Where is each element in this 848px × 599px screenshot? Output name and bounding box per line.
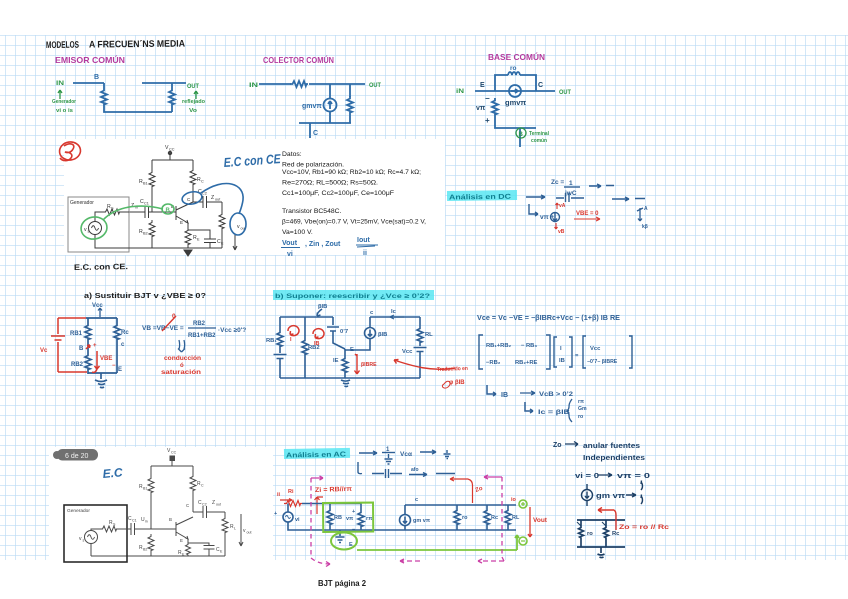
svg-text:ii: ii: [277, 492, 281, 498]
blue annotation swoosh over figure: [181, 184, 246, 235]
capacitor CC1: [129, 206, 149, 218]
source VS: [89, 222, 102, 235]
vi source: [283, 512, 293, 522]
svg-text:E: E: [118, 367, 122, 373]
wire Rc: [192, 160, 194, 168]
wire to out: [309, 83, 365, 85]
beta IB arrow hook: [317, 309, 322, 316]
bottom wire: [299, 122, 351, 124]
svg-text:+: +: [274, 511, 277, 517]
svg-text:MODELOS: MODELOS: [46, 40, 79, 51]
red ii arrow: [280, 499, 292, 502]
svg-text:Iout: Iout: [357, 237, 370, 244]
red bottom wire: [58, 371, 87, 373]
svg-text:CC: CC: [169, 148, 175, 152]
top wire right: [370, 316, 420, 318]
ro branch: [580, 520, 582, 526]
arrow green in: [58, 90, 62, 99]
bottom wire 2: [405, 529, 516, 531]
svg-text:CC: CC: [171, 451, 177, 455]
svg-text:β=469, Vbe(on)=0.7 V, Vt=25mV: β=469, Vbe(on)=0.7 V, Vt=25mV, Vce(sat)=…: [282, 219, 426, 226]
vout arrow: [233, 234, 237, 250]
resistor RE: [185, 228, 191, 246]
svg-text:C: C: [313, 130, 318, 137]
svg-text:Vcc: Vcc: [590, 346, 601, 352]
wire: [344, 374, 346, 378]
wire to cap: [121, 211, 129, 213]
svg-text:E.C. con CE.: E.C. con CE.: [74, 262, 128, 272]
svg-text:vA: vA: [559, 203, 566, 209]
AC notes line1: [358, 450, 455, 478]
left vertical: [279, 317, 281, 330]
labels iN OUT green: [456, 88, 571, 96]
wire: [279, 348, 281, 353]
battery Vcc right: [414, 348, 427, 352]
svg-text:+: +: [93, 343, 97, 349]
capacitor CE: [188, 543, 215, 556]
svg-text:A FRECUEN´NS MEDIA: A FRECUEN´NS MEDIA: [89, 39, 185, 51]
Rc resistor: [486, 505, 488, 508]
base wire: [149, 211, 177, 213]
svg-text:out: out: [216, 503, 221, 507]
svg-text:RB1+RB2: RB1+RB2: [188, 333, 216, 339]
top wire: [86, 317, 117, 319]
wire: [171, 460, 173, 466]
svg-text:C1: C1: [144, 202, 149, 206]
arrow 3: [612, 197, 645, 201]
wire: [151, 238, 153, 248]
svg-text:vi = 0: vi = 0: [575, 473, 599, 480]
svg-text:OUT: OUT: [559, 89, 571, 96]
main wire E to C: [475, 90, 555, 92]
svg-text:B: B: [94, 74, 99, 81]
svg-text:Terminal: Terminal: [529, 131, 549, 137]
label Zc fraction: [540, 179, 577, 221]
blue AC circuit: [283, 504, 516, 543]
wire to base node: [151, 188, 153, 212]
svg-text:L: L: [234, 527, 236, 531]
red arrow down: [92, 351, 100, 372]
wire: [304, 356, 306, 378]
line2 hook: [358, 462, 362, 474]
svg-text:anular fuentes: anular fuentes: [583, 443, 640, 450]
svg-text:Cc1=100μF, Cc2=100μF, Ce=100μF: Cc1=100μF, Cc2=100μF, Ce=100μF: [282, 190, 394, 197]
Vcc square node: [170, 456, 175, 461]
svg-text:Vcc: Vcc: [402, 349, 413, 355]
red strike and zero: [162, 316, 176, 331]
svg-text:A: A: [644, 206, 648, 212]
ground: [184, 250, 192, 256]
svg-text:Rc: Rc: [121, 330, 129, 336]
svg-text:Independientes: Independientes: [583, 455, 645, 462]
green plus circle: [519, 500, 527, 508]
svg-text:out: out: [247, 531, 252, 535]
svg-text:Vo: Vo: [189, 108, 198, 114]
svg-text:E: E: [180, 538, 183, 543]
green output wire: [357, 535, 519, 550]
wire to cap: [118, 528, 131, 530]
arrow: [359, 451, 377, 455]
wire to rpi: [330, 503, 361, 505]
svg-text:RB: RB: [334, 515, 342, 521]
current source branch: [369, 317, 371, 327]
wire: [171, 106, 173, 112]
emitter branch: [344, 349, 346, 356]
svg-text:βIB: βIB: [378, 332, 387, 338]
resistor RB1: [148, 476, 154, 494]
swoosh curve to vout: [201, 184, 243, 214]
svg-text:vi: vi: [295, 517, 300, 523]
svg-text:−RB₂: −RB₂: [486, 360, 501, 366]
svg-text:ro: ro: [587, 531, 593, 537]
red conduccion o saturacion: [161, 356, 201, 376]
svg-text:, Zin , Zout: , Zin , Zout: [305, 241, 341, 248]
svg-text:Generador: Generador: [67, 508, 90, 514]
wire source bottom: [95, 235, 152, 249]
top rail: [151, 465, 193, 467]
top rail: [152, 159, 193, 161]
small gnd: [444, 450, 451, 459]
svg-text:ro: ro: [578, 414, 583, 420]
bottom wire: [577, 546, 625, 548]
red VA arrows on source: [555, 203, 559, 229]
top wire 2: [405, 504, 516, 506]
afo arrow: [409, 473, 427, 477]
svg-text:IB: IB: [314, 341, 320, 347]
svg-text:RB1: RB1: [70, 331, 83, 337]
wire Rc: [192, 466, 194, 474]
arrow vi to vpi: [598, 473, 612, 477]
wire collector: [192, 186, 194, 202]
resistor RB1: [149, 170, 155, 188]
red loop arrows: [288, 326, 324, 339]
battery symbol: [51, 336, 65, 340]
dash: [436, 473, 455, 475]
svg-text:Datos:: Datos:: [282, 151, 302, 158]
wire input: [73, 82, 104, 84]
generador box: [64, 505, 127, 562]
svg-text:Ic: Ic: [391, 309, 397, 315]
svg-text:Vc: Vc: [40, 348, 48, 354]
svg-text:Zc =: Zc =: [551, 179, 564, 186]
current source circle: [365, 328, 376, 339]
bracket3 right: [629, 336, 632, 368]
svg-text:Va=100 V.: Va=100 V.: [282, 229, 313, 236]
RB resistor: [329, 504, 331, 509]
svg-text:Z: Z: [212, 500, 215, 506]
svg-text:gmvπ: gmvπ: [302, 103, 322, 110]
datos printed text block: [282, 151, 426, 236]
labels circuit a: [70, 330, 129, 373]
transistor Q1: [176, 202, 193, 228]
red labels: [40, 343, 116, 369]
svg-text:ro: ro: [510, 65, 517, 72]
printed figure 2: [64, 456, 243, 562]
svg-text:φ βIB: φ βIB: [449, 380, 465, 386]
svg-text:BJT página 2: BJT página 2: [318, 578, 366, 588]
svg-text:·Vcc ≥0'?: ·Vcc ≥0'?: [218, 327, 246, 334]
svg-text:IN: IN: [56, 80, 64, 87]
svg-text:Transistor BC548C.: Transistor BC548C.: [282, 208, 342, 215]
svg-text:B: B: [519, 132, 524, 138]
CC model circuit: [259, 81, 365, 138]
wire source bottom: [90, 544, 92, 557]
ground: [341, 380, 350, 387]
wire RB1: [150, 466, 152, 476]
svg-text:Zo = ro // Rc: Zo = ro // Rc: [619, 524, 670, 531]
vout arrow: [239, 514, 243, 546]
svg-text:vB: vB: [558, 229, 565, 235]
terminal C stub: [309, 123, 311, 138]
svg-text:afo: afo: [411, 467, 419, 473]
red input annotations: [280, 497, 323, 514]
wire: [419, 344, 421, 346]
wire top: [288, 504, 330, 513]
svg-text:gmvπ: gmvπ: [505, 98, 526, 107]
ro resistor: [456, 505, 458, 508]
bottom rail: [280, 377, 420, 379]
labels AC circuit: [274, 497, 520, 548]
resistor RL: [221, 202, 223, 212]
svg-text:Vcc: Vcc: [92, 303, 103, 309]
svg-text:B: B: [79, 346, 84, 352]
bottom rail: [91, 555, 225, 557]
ground stub: [336, 530, 345, 543]
svg-text:B1: B1: [143, 182, 148, 186]
svg-text:rπ: rπ: [366, 516, 373, 522]
Ic arrow: [390, 315, 404, 319]
resistor ro: [508, 72, 520, 75]
red Zi hook arrow: [315, 497, 324, 514]
bottom wire: [495, 116, 536, 128]
resistor RB1: [277, 330, 283, 348]
svg-text:saturación: saturación: [161, 370, 201, 376]
svg-text:RL: RL: [512, 515, 520, 521]
wire: [279, 359, 281, 379]
svg-text:kβ: kβ: [642, 224, 648, 230]
red arrow down RE: [355, 354, 360, 374]
equation VB blue: [142, 321, 246, 339]
red vout arrow: [528, 507, 532, 537]
bottom rail: [152, 247, 222, 249]
terminal stub: [519, 128, 521, 147]
green annotation curve over figure: [79, 204, 174, 241]
red circled 3: [58, 141, 81, 162]
svg-text:Gm: Gm: [578, 406, 587, 412]
current source circle: [509, 85, 521, 97]
svg-text:a) Sustituir BJT v ¿VBE ≥: a) Sustituir BJT v ¿VBE ≥ 0?: [84, 291, 206, 300]
white backing of printed figure 2: [49, 447, 273, 576]
svg-text:BASE COMÚN: BASE COMÚN: [488, 51, 545, 62]
printed figure 1: [68, 151, 237, 256]
svg-text:C: C: [186, 503, 189, 508]
svg-text:c: c: [415, 497, 418, 503]
svg-text:RB₁+RB₂: RB₁+RB₂: [486, 343, 512, 349]
capacitor symbol open: [556, 193, 584, 202]
ground stub: [100, 373, 102, 379]
resistor RB2: [148, 534, 154, 552]
svg-text:−0’7− βIBRE: −0’7− βIBRE: [587, 359, 618, 365]
arrow: [526, 195, 545, 199]
svg-text:B: B: [169, 517, 172, 522]
svg-text:B1: B1: [143, 487, 147, 491]
resistor series: [290, 81, 308, 87]
EC model circuit: [73, 83, 186, 112]
wire collector: [192, 492, 194, 512]
fraction bar: [188, 327, 216, 329]
svg-text:Z: Z: [211, 195, 214, 201]
fraction bar: [564, 186, 580, 188]
svg-text:COLECTOR COMÚN: COLECTOR COMÚN: [263, 54, 334, 65]
svg-text:E.C: E.C: [102, 465, 123, 481]
arrow zo: [565, 442, 578, 447]
second vertical: [304, 317, 306, 338]
svg-text:ro: ro: [462, 515, 468, 521]
node B: [103, 83, 105, 88]
resistor: [347, 96, 353, 114]
node IN wire: [259, 83, 291, 85]
svg-text:B: B: [166, 208, 171, 214]
svg-text:vπ +: vπ +: [540, 214, 554, 221]
svg-text:RB₁: RB₁: [266, 338, 277, 344]
svg-text:OUT: OUT: [187, 83, 199, 90]
svg-text:−: −: [485, 94, 490, 103]
arrow: [420, 450, 436, 454]
vpi resistor: [492, 98, 498, 116]
bracket3 left: [583, 336, 586, 368]
wire output top: [142, 82, 186, 84]
navy mark xA kB: [637, 208, 643, 221]
svg-text:RL: RL: [425, 332, 433, 338]
svg-text:Generador: Generador: [52, 99, 77, 105]
grey slide pill 6 de 20: [57, 449, 98, 461]
ellipse around source: [79, 215, 108, 241]
wire: [104, 106, 172, 112]
wire to base: [150, 494, 152, 529]
svg-text:OUT: OUT: [369, 82, 381, 89]
svg-text:Zo: Zo: [553, 442, 562, 449]
ellipse around vout: [230, 213, 246, 235]
svg-text:B2: B2: [143, 232, 148, 236]
svg-text:Rc: Rc: [612, 531, 620, 537]
wire: [329, 112, 331, 124]
IB conclusion: [487, 385, 496, 396]
red battery loop: [51, 318, 100, 372]
red Zo hook: [450, 477, 473, 503]
resistor RE: [342, 356, 348, 374]
wire cap wire: [372, 469, 402, 478]
rpi resistor: [360, 504, 362, 511]
circle around B: [162, 204, 174, 214]
right vertical: [419, 317, 421, 326]
capacitor CC2: [193, 506, 225, 518]
svg-text:Zi = RB//rπ: Zi = RB//rπ: [315, 486, 352, 494]
svg-text:vπ: vπ: [346, 516, 354, 522]
capacitor CC2: [193, 196, 222, 208]
open circuit marks: [641, 481, 643, 505]
green minus circle: [519, 537, 527, 545]
bracket left: [479, 335, 483, 369]
svg-text:VcB > 0’2: VcB > 0’2: [539, 391, 573, 398]
Vcc node: [168, 151, 171, 154]
green highlight box around RB rpi: [323, 503, 373, 532]
green ellipse around ground E: [331, 533, 357, 550]
Zo anular fuentes block: [553, 442, 650, 500]
svg-text:Vout: Vout: [533, 517, 548, 524]
svg-text:vi: vi: [287, 251, 293, 258]
svg-text:RB2: RB2: [193, 321, 206, 327]
svg-text:− RB₃: − RB₃: [521, 343, 537, 349]
ellipse around C node: [181, 190, 203, 206]
ground stub: [598, 547, 605, 558]
svg-text:Análisis en DC: Análisis en DC: [449, 194, 511, 202]
svg-text:−: −: [112, 363, 116, 369]
svg-text:E: E: [350, 347, 354, 353]
resistor RB2: [85, 353, 91, 371]
bottom wire: [88, 372, 117, 374]
resistor RL: [224, 512, 226, 516]
resistor RB1: [85, 323, 91, 341]
transistor Q1: [176, 517, 193, 543]
curve to base: [103, 206, 163, 220]
wire: [349, 114, 351, 123]
svg-text:Vcα: Vcα: [400, 451, 412, 458]
svg-text:0: 0: [172, 313, 176, 320]
wire: [171, 83, 173, 88]
DC notes handwriting: [526, 184, 645, 222]
svg-text:reflejado: reflejado: [182, 99, 206, 105]
labels circuit b: [266, 304, 433, 364]
svg-text:RB₂+RE: RB₂+RE: [515, 360, 538, 366]
svg-text:Análisis en AC: Análisis en AC: [286, 451, 346, 459]
base wire: [135, 528, 177, 530]
wire down to source: [329, 84, 331, 98]
capacitor CC1: [131, 523, 135, 535]
svg-text:Red de polarización.: Red de polarización.: [282, 162, 344, 169]
wire: [419, 352, 421, 379]
red zo arrow: [598, 508, 616, 531]
svg-text:in: in: [145, 520, 148, 524]
svg-text:Ic = βIB: Ic = βIB: [538, 409, 570, 416]
ground: [95, 380, 107, 388]
svg-text:E: E: [180, 220, 183, 225]
title MODELOS A FRECUENCIA MEDIA: [46, 39, 185, 51]
wire: [151, 160, 153, 170]
svg-text:EMISOR COMÚN: EMISOR COMÚN: [55, 54, 125, 65]
svg-text:Traducido en: Traducido en: [437, 366, 469, 373]
svg-text:vπ: vπ: [476, 105, 486, 112]
resistor Rc: [114, 323, 120, 341]
red wire down: [57, 318, 59, 372]
resistor RB2: [149, 220, 155, 238]
source VS: [85, 531, 98, 544]
red top wire: [58, 317, 86, 319]
wire: [150, 552, 152, 556]
current source branch: [404, 505, 406, 515]
svg-text:C1: C1: [132, 519, 137, 523]
arrow green out: [194, 91, 198, 99]
svg-text:1: 1: [569, 180, 573, 187]
bracket2 left: [554, 337, 557, 367]
svg-text:IB: IB: [559, 358, 565, 364]
generador box: [68, 197, 129, 252]
resistor RB2: [302, 338, 308, 356]
svg-text:iN: iN: [456, 88, 464, 95]
cyan highlight analisis en AC: [284, 448, 350, 459]
battery Vcc left: [274, 355, 287, 359]
resistor Rc: [190, 168, 196, 186]
svg-text:Re=270Ω; RL=500Ω; Rs=50Ω.: Re=270Ω; RL=500Ω; Rs=50Ω.: [282, 180, 378, 187]
